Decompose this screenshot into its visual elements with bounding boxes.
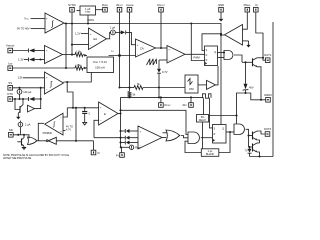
junction chain y147.3 [120,146,122,148]
label I3 [25,123,31,127]
wire FF1 Q2 to AND1 [218,57,225,59]
svg-text:PWROK: PWROK [43,131,53,135]
wire 1.3V to D2 [24,59,29,61]
wire D3 to node [35,98,41,100]
wire B5 bottom drop [202,122,204,149]
wire U5 output [156,47,168,49]
wire G7 output [234,55,242,62]
wire U9 output [162,137,166,139]
svg-text:ISENSE: ISENSE [126,3,134,7]
svg-text:+: + [90,33,92,36]
svg-text:VCC: VCC [24,17,29,21]
diode D6 [125,129,129,133]
inverter G2 [46,137,56,144]
junction rail x88 [87,22,89,24]
svg-text:S: S [206,50,208,52]
wire I3 up [19,121,21,123]
diode D2 [29,58,35,62]
svg-text:CAOUT: CAOUT [157,3,166,7]
comparator U8 PWROK [45,113,63,135]
wire G1 output [37,140,46,142]
wire G8 output [246,129,253,147]
wire zener down [237,90,246,124]
svg-text:OUT1: OUT1 [264,53,272,57]
note text [3,154,70,160]
wire coll to OUT1 [263,58,266,60]
junction isense node [128,86,130,88]
svg-text:+: + [46,50,48,53]
ground arrow GND pin [219,12,224,22]
svg-text:−: − [90,44,92,47]
comparator U6 PWM [167,46,185,64]
junction zener branch [244,92,246,94]
svg-text:SS: SS [8,81,12,85]
wire cap rail [67,107,98,109]
wire right border [272,22,274,157]
label 1.5k input [17,76,23,80]
junction D9 [248,146,250,148]
or-gate G4 [166,130,180,141]
wire icon drop2 [210,98,213,128]
wire osc to buffer [198,84,207,86]
wire FF1 Q to AND1 [218,52,225,54]
wire feedback drop x76 [75,108,77,141]
wire I1 bottom [19,94,21,99]
svg-text:∫: ∫ [49,81,52,88]
buffer U10 (feedback) [225,25,243,46]
buffer G6 [207,80,216,89]
label C1 [89,113,91,116]
pin RDT (mid 2) [183,103,194,108]
current source I2 [111,30,116,35]
svg-text:SYNC: SYNC [68,3,76,7]
comparator U5 current amp [136,39,156,57]
svg-text:1.3V: 1.3V [18,57,24,61]
transistor Q1 [18,99,23,113]
wire R1 to reg [83,54,87,57]
transistor Q5 [253,143,258,152]
ground arrow Q1 [16,113,20,119]
pin GND (top 6) [218,3,224,12]
label PWROK [43,131,53,135]
ground arrow U10 [246,41,250,48]
svg-text:D: D [206,55,208,57]
svg-text:1 µA: 1 µA [110,26,116,30]
wire D5 down [158,73,160,97]
junction rail1 x161 [160,96,162,98]
junction x221 y33.8 [220,33,222,35]
junction cap node [84,107,86,109]
svg-text:−: − [60,117,62,120]
label VCC [24,17,29,21]
svg-text:−: − [46,59,48,62]
wire main output rail [64,24,221,34]
label 25k [76,63,81,67]
comparator U9 [138,126,162,149]
junction Q1 coll [22,98,24,100]
wire ramp vertical [158,60,160,69]
junction fb bottom [75,140,77,142]
svg-text:GND2: GND2 [264,93,272,97]
svg-text:140 µA: 140 µA [23,90,31,94]
wire B1 to RREF pin [96,9,103,11]
flip-flop FF1 [205,46,218,66]
wire D4 to corner [126,32,136,44]
wire U8 output [38,123,44,141]
svg-text:+: + [137,44,139,47]
svg-text:VREF = 5.1V: VREF = 5.1V [93,60,107,64]
svg-text:∫: ∫ [52,121,55,128]
diode D4 [121,30,126,34]
junction d-row2 x120 [119,137,121,139]
label 140uA [23,90,31,94]
svg-text:0.7V: 0.7V [162,70,168,74]
wire D9 top [249,147,251,149]
wire Q5 collector [257,142,260,144]
svg-text:+: + [60,131,62,134]
wire G4 in1 stub [163,132,168,134]
junction Q1 base node [14,98,16,100]
transistor Q3 [253,58,258,67]
wire D2 to U2 [35,59,45,61]
label 100% [87,18,94,22]
pin VC (top 8) [254,3,259,12]
comparator U4 [89,28,107,50]
wire I3 down [19,127,21,135]
wire DTC pin segment [12,98,28,100]
diode D8 [125,141,129,145]
pin RT (left 5) [9,128,14,137]
wire Q3 base [242,61,253,63]
svg-text:CT: CT [97,151,101,155]
junction DTC node [40,98,42,100]
pin RREF (top 2) [102,3,109,12]
wire clock rail [121,96,204,98]
svg-text:INOUT: INOUT [116,3,124,7]
wire D8 to U9 [130,142,139,144]
wire label to U3 [23,77,45,79]
wire G5 output [201,137,213,139]
wire stub to RDT pin [190,97,192,102]
wire R2 to reg [83,67,87,69]
junction emitter join [260,99,262,101]
label R4 [133,92,136,96]
junction fb top [75,107,77,109]
sawtooth waveform icon [147,59,157,65]
wire U10 top stub [243,12,248,29]
zener Z1 [244,84,248,90]
wire U3 branch down [67,82,73,108]
svg-text:Q: Q [214,52,216,54]
svg-text:40V: 40V [249,85,254,89]
wire d-row1 [121,130,126,132]
svg-text:S: S [214,128,216,130]
svg-text:+: + [140,131,142,134]
arrow into reg 1 [84,54,87,56]
junction Q3 coll [262,57,264,59]
svg-text:5k: 5k [133,92,136,96]
wire SD pin [13,135,29,138]
junction U10 tap [220,34,222,36]
diode D5 0.7V [157,69,161,74]
svg-text:100 mA: 100 mA [95,66,105,70]
wire U7 lower input [94,120,99,138]
zener wings [243,89,249,91]
pin GND2 (right 2) [264,93,272,102]
svg-text:−: − [100,120,102,123]
wire U7 output [118,113,121,115]
wire x202 branch [202,34,221,51]
junction AND in [223,51,225,53]
pin OUT2 (right 3) [264,127,272,136]
junction rail x72 [71,22,73,24]
wire x72 to U4 [72,44,89,46]
wire CAOUT drop [160,12,162,48]
pin VOUT (top 3) [116,3,124,12]
svg-text:PGND: PGND [244,3,251,7]
svg-text:IO: IO [112,50,115,53]
junction SD a [17,134,19,136]
junction chain y142.5 [119,141,121,143]
junction D2 node [39,58,41,60]
wire zener drop [245,62,247,84]
squarewave icon [203,94,212,98]
wire FF2 out drop [219,132,230,153]
wire ILIM rail [12,67,75,69]
pin PGND (top 7) [244,3,251,12]
wire ramp to U6 [159,59,167,61]
junction U7 out [119,112,121,114]
junction rail1 x191 [190,96,192,98]
current source I4 [129,145,133,149]
wire INOUT drop [119,12,121,88]
pin CT (bottom 1) [91,150,101,155]
pin VSENSE (left 1) [6,44,15,53]
junction U3 out branch [66,81,68,83]
label 0.7V [162,70,168,74]
svg-text:C: C [89,113,91,116]
junction x72 y54.6 [71,54,73,56]
buffer G3 [28,105,35,112]
label 1.3V [18,57,24,61]
current source I3 [18,122,23,127]
svg-text:PWM: PWM [193,56,199,60]
svg-text:ROSC: ROSC [165,103,172,107]
wire rail drop x66 [65,24,67,69]
label 1uA [110,26,116,30]
wire D7 to U9 [130,137,139,139]
wire x221 down to FF2 [220,34,222,125]
wire U10 bottom stub [243,40,249,42]
pin DTC (left 4) [7,92,13,101]
wire R3 to osc [143,87,185,89]
wire R4 top stub [129,88,131,92]
junction cap rail left [72,107,74,109]
label I4 [135,146,142,150]
wire U3 output [64,73,92,83]
label R3 [137,82,140,86]
svg-text:OUT2: OUT2 [264,127,272,131]
pin CAOUT (top 5) [157,3,166,12]
svg-text:ILIM: ILIM [8,61,12,65]
wire Q4 collector [257,131,265,134]
svg-text:RDT: RDT [183,103,188,107]
delay block B5 [197,115,209,123]
svg-text:1.5k: 1.5k [17,76,23,80]
wire box5 to nand [209,115,237,117]
or-gate G1 [28,137,37,145]
resistor R3 [134,86,143,90]
wire 1.2V to U4 [81,33,89,35]
junction inout row [118,86,120,88]
label 1.5k [76,50,82,54]
current source I1 [17,89,22,94]
wire Q5 emitter [257,152,260,157]
wire I4 stub [121,146,129,148]
resistor R4 [128,92,132,98]
label PWM [193,56,199,60]
svg-text:EA: EA [94,37,98,41]
wire reg to U5 [109,55,136,57]
pin NI (left 3) [8,81,13,90]
svg-text:RREF: RREF [102,3,109,7]
svg-text:GND: GND [218,3,224,7]
wire VC drop [256,12,263,57]
svg-text:1.2V: 1.2V [75,32,81,36]
resistor R2 25k [75,66,83,70]
wire U8 lower stub [63,130,66,132]
wire Q4 base stub [249,135,253,137]
delay block B4 [201,149,219,157]
svg-text:DELAY: DELAY [199,119,207,122]
svg-text:+: + [168,48,170,51]
diode D7 [125,136,129,140]
svg-text:E: E [104,112,106,116]
wire SYNC drop [71,12,73,55]
op-amp U3 (soft-start integrator) [45,72,64,94]
svg-text:FS: FS [116,153,120,157]
and-gate G7 [224,51,233,60]
op-amp U1 (error integrator) [45,13,64,33]
wire d-row2 [94,137,125,139]
transistor Q4 [253,131,258,140]
pin ISENSE (top 4) [126,3,134,12]
wire icon drop1 [203,98,205,114]
label D9 7V [245,150,248,153]
svg-text:9V TO 40V: 9V TO 40V [17,27,30,31]
wire B1 drop [87,15,89,24]
svg-text:TYP: TYP [85,10,90,14]
label 40V [249,85,254,89]
wire U6 output PWM [185,53,205,55]
svg-text:VC: VC [255,3,259,7]
junction rail x66 [65,22,67,24]
junction SD b [23,134,25,136]
pin INV (left 2) [8,61,13,70]
junction Q3 base [244,61,246,63]
svg-text:OSC: OSC [189,88,195,91]
wire SS pin to U3 [12,87,44,89]
wire to R3 [120,87,135,89]
svg-text:1 µA: 1 µA [25,123,31,127]
pin FS (bottom 2) [116,153,124,158]
wire U1 - input [31,28,46,30]
svg-text:VSENSE: VSENSE [6,44,15,48]
svg-text:R: R [214,134,216,136]
wire blank rail [121,110,189,134]
junction I1 top [18,87,20,89]
label 9V TO 40V [17,27,30,31]
ground arrow C1 [83,113,87,125]
svg-text:AFTER THE PWM PULSE.: AFTER THE PWM PULSE. [3,157,32,160]
wire G4 output [181,136,188,138]
junction Q4 base [247,134,249,136]
wire D9 bottom [249,153,251,156]
diode D1 [29,49,35,53]
wire B4 left [185,141,201,152]
wire I1 top [19,88,21,90]
svg-text:CA: CA [140,47,144,51]
svg-text:−: − [46,28,48,31]
wire CT pin drop [93,141,95,150]
wire Q3 collector [257,57,263,59]
transistor Q2 [17,135,24,147]
resistor R1 1.5k [75,53,83,57]
junction rail1 x159 [158,96,160,98]
wire G2 output [56,140,93,142]
wire D1 to U2 [35,50,45,52]
nand-gate G8 [234,124,244,135]
wire SS node drop [40,88,42,99]
junction rail1 x129.5 [128,96,130,98]
diode D3 [29,97,35,101]
wire Q4 emitter [257,140,260,143]
wire G6 out [216,66,219,85]
svg-text:−: − [46,88,48,91]
svg-text:+: + [46,77,48,80]
wire U4 out up [107,32,111,38]
wire U1 + input [31,18,46,20]
wire Q1 base feed [15,99,20,110]
svg-text:4.7V: 4.7V [66,129,71,132]
junction SS node [40,87,42,89]
wire bottom rail [250,156,274,158]
pin OUT1 (right 1) [264,53,272,62]
wire d-row3 [121,142,126,144]
label 4V TO 4.7V [66,125,73,131]
wire VSENSE to D1 [12,50,28,52]
svg-text:+: + [46,18,48,21]
wire U8 upper stub [63,108,67,117]
svg-text:Q: Q [222,128,224,130]
svg-text:7V: 7V [245,150,248,153]
and-gate G5 [188,132,199,144]
svg-text:DTC: DTC [7,92,13,96]
wire out vertical chain [121,97,122,152]
svg-text:SD: SD [9,128,13,132]
wire ISENSE drop [129,12,131,88]
junction FF2 out [229,131,231,133]
junction x159 y87.5 [158,86,160,88]
flip-flop FF2 [213,125,227,144]
junction rail x191 [190,22,192,24]
pin SYNC (top 1) [68,3,76,12]
wire D6 to U9 [130,130,139,132]
wire G3 output up [35,99,41,109]
junction chain y131 [119,130,121,132]
junction x66 y68 [65,67,67,69]
node blob [118,54,121,57]
